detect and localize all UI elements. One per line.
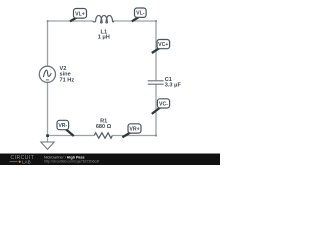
watermark title xyxy=(44,155,85,159)
resistor R1 xyxy=(94,133,112,138)
ground xyxy=(41,142,54,149)
watermark bar xyxy=(0,154,220,166)
capacitor C1 xyxy=(148,81,164,84)
watermark logo CIRCUIT xyxy=(11,155,35,161)
wire left branch upper xyxy=(47,21,49,66)
value 3.3 uF xyxy=(165,82,182,88)
node junction dot xyxy=(46,134,49,137)
wire right branch upper xyxy=(155,20,157,80)
value 680 Ohm xyxy=(96,124,112,130)
wire bottom left segment xyxy=(48,135,95,137)
svg-text:VC+: VC+ xyxy=(158,42,168,48)
inductor L1 xyxy=(93,15,114,23)
label R1 xyxy=(100,119,107,125)
value 71 Hz xyxy=(60,78,75,84)
svg-text:http://circuitlab.com/cqe76272: http://circuitlab.com/cqe76272b6cdf xyxy=(44,160,99,164)
node corner top-right xyxy=(155,20,157,22)
wire ground stub xyxy=(47,136,49,143)
value 1 uH xyxy=(98,35,110,41)
svg-text:680 Ω: 680 Ω xyxy=(96,124,112,130)
net flag VC- xyxy=(152,99,170,114)
net flag VR- xyxy=(57,120,74,136)
node corner top-left xyxy=(47,20,49,22)
voltage source V2 xyxy=(39,66,55,82)
wire left branch lower xyxy=(47,82,49,135)
net flag VR+ xyxy=(122,124,141,138)
net flag VL- xyxy=(132,8,146,21)
svg-text:3.3 μF: 3.3 μF xyxy=(165,82,182,88)
label V2 xyxy=(60,66,67,72)
svg-text:VR-: VR- xyxy=(58,123,67,129)
node corner bottom-right xyxy=(155,135,157,137)
label L1 xyxy=(101,29,108,35)
net flag VL+ xyxy=(70,9,87,22)
svg-text:VL-: VL- xyxy=(136,11,145,17)
wire right branch lower xyxy=(155,84,157,136)
svg-text:1 μH: 1 μH xyxy=(98,35,110,41)
svg-text:VC-: VC- xyxy=(159,101,168,107)
svg-text:VR+: VR+ xyxy=(129,127,139,133)
wire top right segment xyxy=(113,20,156,22)
net flag VC+ xyxy=(152,40,170,54)
svg-text:71 Hz: 71 Hz xyxy=(60,78,75,84)
wire top left segment xyxy=(47,20,93,22)
wire bottom right segment xyxy=(112,135,156,137)
svg-text:LAB: LAB xyxy=(22,160,31,165)
watermark logo LAB xyxy=(10,160,31,165)
value sine xyxy=(60,72,71,78)
watermark url xyxy=(44,160,99,164)
label C1 xyxy=(165,77,172,83)
svg-text:VL+: VL+ xyxy=(75,11,85,17)
